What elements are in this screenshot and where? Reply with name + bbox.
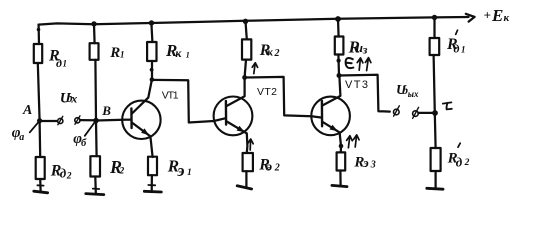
svg-text:1: 1 <box>63 59 68 69</box>
svg-text:э: э <box>362 155 369 170</box>
svg-text:ых: ых <box>408 89 419 99</box>
svg-text:1: 1 <box>187 168 192 178</box>
svg-text:VT2: VT2 <box>257 86 277 98</box>
svg-text:x: x <box>70 92 77 106</box>
svg-text:2: 2 <box>274 48 280 59</box>
svg-text:2: 2 <box>274 162 280 173</box>
svg-text:д: д <box>454 42 460 56</box>
svg-text:б: б <box>81 138 87 149</box>
svg-text:1: 1 <box>186 50 190 59</box>
svg-text:VT3: VT3 <box>345 79 368 91</box>
svg-text:д: д <box>56 56 62 70</box>
svg-text:2: 2 <box>66 172 72 182</box>
svg-text:к: к <box>504 12 510 24</box>
svg-text:к: к <box>267 47 273 59</box>
svg-text:д: д <box>456 155 463 170</box>
svg-text:1: 1 <box>120 50 125 60</box>
svg-text:В: В <box>101 103 111 118</box>
svg-text:э: э <box>176 161 184 180</box>
svg-text:1: 1 <box>461 45 466 55</box>
svg-text:E: E <box>491 6 503 25</box>
svg-text:R: R <box>109 45 120 61</box>
svg-text:+: + <box>484 8 491 23</box>
svg-text:з: з <box>362 43 368 57</box>
svg-text:2: 2 <box>464 158 470 168</box>
svg-text:а: а <box>19 132 24 143</box>
svg-text:2: 2 <box>119 167 125 177</box>
svg-text:к: к <box>175 46 182 60</box>
svg-text:VT1: VT1 <box>162 89 179 101</box>
svg-text:3: 3 <box>370 160 376 171</box>
svg-text:A: A <box>22 103 32 118</box>
svg-text:д: д <box>60 166 67 181</box>
svg-text:э: э <box>266 158 273 173</box>
